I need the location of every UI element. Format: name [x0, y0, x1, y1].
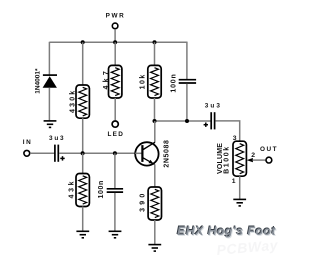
potentiometer VOLUME B100k — [217, 135, 246, 185]
wire 390 bottom — [154, 220, 156, 244]
diode 1N4001 — [35, 68, 58, 94]
svg-text:EHX Hog's Foot: EHX Hog's Foot — [177, 224, 276, 238]
svg-text:100n: 100n — [170, 73, 177, 92]
svg-text:LED: LED — [107, 131, 124, 138]
svg-text:OUT: OUT — [260, 146, 278, 153]
title EHX Hog's Foot — [176, 223, 277, 239]
svg-text:100n: 100n — [98, 180, 105, 198]
svg-text:IN: IN — [23, 139, 32, 146]
wire 100n-2 top — [114, 153, 116, 188]
capacitor 100n (lower) — [98, 180, 123, 198]
svg-text:1N4001*: 1N4001* — [35, 68, 42, 94]
ground (diode) — [44, 121, 57, 128]
wire 4k7 top — [114, 42, 116, 65]
transistor Q1 2N5088 — [135, 140, 170, 168]
wire 43k bottom — [82, 207, 84, 231]
node collector-100n — [185, 119, 189, 123]
resistor 43k — [69, 174, 90, 207]
node rail-430k — [81, 40, 85, 44]
wire 43k top — [82, 153, 84, 173]
svg-text:3u3: 3u3 — [49, 135, 65, 142]
svg-text:2: 2 — [251, 152, 255, 159]
wire 430k bottom — [82, 118, 84, 153]
wire collector node line — [155, 120, 211, 122]
wiper arrow pin 2 — [247, 152, 266, 162]
capacitor 3u3 (input) — [49, 135, 65, 162]
capacitor 100n (upper) — [170, 73, 196, 92]
wire 430k top — [82, 42, 84, 85]
resistor 10k — [140, 65, 162, 98]
svg-text:PWR: PWR — [106, 13, 126, 20]
wire 100n-1 bottom — [186, 84, 188, 121]
svg-text:B100k: B100k — [224, 145, 231, 174]
PWR terminal — [106, 13, 126, 29]
wire pot bottom — [239, 176, 241, 199]
OUT terminal — [260, 146, 278, 163]
svg-text:4k7: 4k7 — [103, 68, 110, 90]
wire diode to ground — [48, 88, 50, 121]
svg-text:1: 1 — [232, 178, 236, 185]
IN terminal — [23, 139, 32, 156]
svg-text:10k: 10k — [140, 73, 147, 89]
wire emitter to 390 — [154, 164, 156, 187]
svg-text:390: 390 — [140, 191, 147, 212]
wire input line — [59, 152, 142, 154]
wire diode branch down — [48, 42, 50, 75]
wire 10k top — [154, 42, 156, 65]
wire 100n-2 bottom — [114, 193, 116, 231]
wire 10k bottom — [154, 98, 156, 121]
wire collector into transistor — [154, 121, 156, 142]
ground (100n) — [109, 231, 122, 238]
node collector-10k — [153, 119, 157, 123]
wire 4k7 to LED — [114, 98, 116, 120]
node rail-10k — [153, 40, 157, 44]
svg-text:3: 3 — [233, 135, 237, 142]
node input-43k — [81, 151, 85, 155]
ground (390) — [148, 245, 161, 252]
svg-text:2N5088: 2N5088 — [163, 140, 170, 168]
svg-text:3u3: 3u3 — [205, 103, 222, 110]
resistor 4k7 — [103, 65, 122, 98]
wire 100n-1 top — [186, 42, 188, 79]
svg-text:43k: 43k — [69, 179, 76, 199]
LED terminal — [107, 121, 124, 138]
resistor 430k — [69, 85, 89, 118]
wire PWR stub — [114, 29, 116, 42]
capacitor 3u3 (output) — [204, 103, 222, 130]
resistor 390 — [140, 187, 162, 220]
node rail-PWR — [113, 40, 117, 44]
wire IN to cap — [30, 152, 54, 154]
ground (pot) — [233, 199, 246, 206]
ground (43k) — [76, 231, 89, 238]
wire top rail — [49, 41, 187, 43]
wire output cap to pot — [215, 121, 239, 141]
node input-100n — [113, 151, 117, 155]
svg-text:430k: 430k — [69, 89, 76, 113]
